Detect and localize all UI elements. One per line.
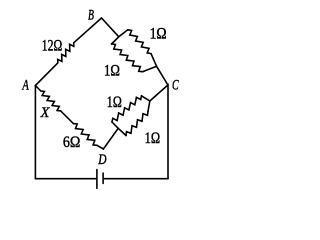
wire bottom left to battery <box>35 178 95 180</box>
svg-text:A: A <box>22 78 29 94</box>
stub top branch to J4 <box>142 96 150 101</box>
svg-text:D: D <box>98 152 107 168</box>
wire 6ohm to D <box>97 145 104 149</box>
stub J3 to top branch <box>112 122 118 128</box>
svg-text:B: B <box>88 7 94 23</box>
resistor 6ohm <box>73 124 97 146</box>
wire A down left side to bottom <box>34 86 36 179</box>
wire battery to bottom right <box>105 178 169 180</box>
wire A to 12ohm resistor <box>35 63 57 86</box>
battery long plate <box>96 170 98 189</box>
wire A to resistor X <box>35 86 40 92</box>
stub J3 to bottom branch <box>118 128 126 135</box>
circuit schematic: Wheatstone-bridge style network <box>0 0 221 202</box>
battery short plate <box>102 173 104 183</box>
resistor X <box>41 91 61 111</box>
svg-text:12Ω: 12Ω <box>42 37 63 54</box>
svg-text:1Ω: 1Ω <box>150 26 167 43</box>
wire J2 to C <box>157 66 168 85</box>
svg-text:1Ω: 1Ω <box>107 94 122 111</box>
wire 12ohm resistor to B <box>74 18 102 43</box>
resistor 1ohm bottom of DC <box>126 112 148 136</box>
svg-text:1Ω: 1Ω <box>145 130 161 147</box>
resistor 1ohm top of BC <box>128 30 151 54</box>
wire between X and 6ohm <box>61 111 74 124</box>
wire D to junction J3 <box>103 128 118 149</box>
svg-text:1Ω: 1Ω <box>104 62 120 79</box>
resistor 1ohm bottom of BC <box>112 44 143 72</box>
wire B to junction J1 <box>102 18 119 37</box>
resistor R_AB 12ohm <box>58 43 74 63</box>
svg-text:C: C <box>172 78 179 94</box>
stub top branch to J2 <box>151 54 157 67</box>
svg-text:6Ω: 6Ω <box>63 134 81 151</box>
svg-text:X: X <box>40 105 51 121</box>
wire J4 to C <box>150 85 168 101</box>
wire right side up to C <box>167 84 169 179</box>
stub J1 to bottom branch <box>112 37 119 44</box>
resistor 1ohm top of DC <box>112 96 142 122</box>
stub bottom branch to J2 <box>143 66 157 71</box>
stub bottom branch to J4 <box>148 101 150 112</box>
stub J1 to top branch <box>119 30 128 37</box>
